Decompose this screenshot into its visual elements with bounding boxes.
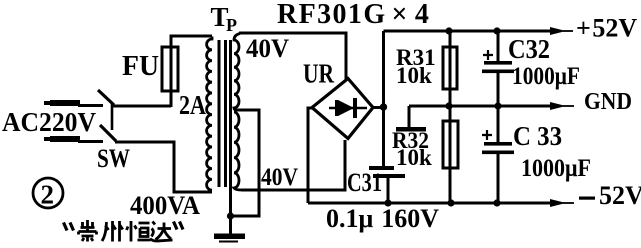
resistor R31 body [443,47,457,89]
R32 top bar terminal [396,127,426,132]
transformer TP primary winding [207,37,212,191]
bridge rectifier UR diamond [312,79,373,139]
svg-text:1000μF: 1000μF [521,155,591,182]
GND arrow [550,102,566,110]
capacitor C33 bottom plate [482,151,514,155]
svg-text:1000μF: 1000μF [512,63,580,90]
svg-text:2A: 2A [179,90,206,120]
resistor R32 body [443,121,458,168]
capacitor C31 top plate [369,166,394,170]
junction C31/-52V [384,199,391,206]
-52V rail [308,202,553,205]
svg-text:C31: C31 [347,168,382,197]
C32 plus sign [483,50,493,60]
transformer core line 2 [224,40,227,187]
svg-text:C 33: C 33 [513,121,562,151]
junction bridge plus [380,103,387,110]
ground symbol [214,234,245,240]
svg-text:2: 2 [41,180,55,210]
junction R32 bottom [447,199,454,206]
figure number 2 circled [33,178,63,208]
+52V arrow [550,27,566,35]
capacitor C32 bottom plate [482,70,514,74]
svg-text:+52V: +52V [576,14,637,43]
svg-text:40V: 40V [261,164,298,191]
opening quote [64,223,74,231]
svg-text:P: P [226,15,237,35]
svg-text:GND: GND [584,89,632,115]
C33 plus sign [482,130,492,140]
capacitor C32 column wire [497,31,500,106]
label -52V [579,197,595,200]
junction R31 top [445,27,452,34]
capacitor C33 top plate [484,142,512,146]
junction C32/GND [494,102,501,109]
svg-text:10k: 10k [396,145,432,170]
svg-text:AC220V: AC220V [2,107,96,137]
switch SW pole 1 (arm) [98,90,114,105]
svg-text:10k: 10k [396,63,432,88]
wire switch2 to primary bottom [115,142,212,192]
+52V rail [384,30,554,33]
capacitor C32 top plate [484,61,512,65]
wire C31 to -52V rail [387,178,390,203]
switch SW pole 2 (arm) [100,125,116,141]
wire bridge minus (left vertex) to -52V rail [308,108,312,203]
-52V arrow [550,199,566,207]
svg-text:C32: C32 [508,34,550,64]
transformer core line 1 [218,40,221,187]
closing quote [174,222,184,230]
svg-text:FU: FU [122,51,159,82]
char chong [79,220,97,242]
junction center tap/ground [227,212,234,219]
wire bridge plus (right vertex) riser [372,31,384,166]
svg-text:40V: 40V [246,34,289,63]
wire fuse to primary top [171,36,212,107]
GND rail [409,106,553,128]
char heng [127,221,151,242]
transformer secondary upper winding 40V [234,34,240,111]
capacitor C31 bottom plate [373,174,405,178]
svg-text:UR: UR [303,59,334,89]
wire secondary top to bridge AC1 [239,33,346,80]
char zhou [102,221,123,242]
svg-text:SW: SW [97,144,130,173]
resistor R31/R32 column wire [449,31,452,203]
junction C32 top [493,27,500,34]
junction R31/GND [445,102,452,109]
svg-text:400VA: 400VA [130,191,200,220]
wire secondary bottom to bridge AC2 [241,140,345,190]
svg-text:RF301G×4: RF301G×4 [277,0,430,30]
junction C33 bottom [493,199,500,206]
wire switch1 to fuse [113,105,171,108]
svg-text:52V: 52V [599,181,641,210]
char da [150,222,173,242]
transformer shield line to ground [229,40,232,234]
transformer secondary lower winding 40V [234,112,242,190]
terminal N (AC input bottom plug) [44,136,103,143]
bridge internal diode [329,98,367,118]
capacitor C33 column wire [497,106,500,203]
brand text quoted chinese [64,220,184,242]
switch SW mechanical link [111,104,114,130]
fuse FU body [162,47,178,91]
wire center tap to ground [231,110,259,216]
terminal L (AC input top plug) [44,100,103,107]
svg-text:0.1μ160V: 0.1μ160V [326,204,439,233]
